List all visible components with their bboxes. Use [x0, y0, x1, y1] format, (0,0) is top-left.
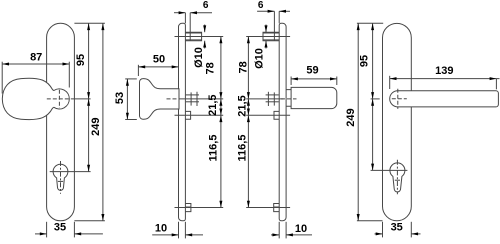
- label 87: [30, 52, 42, 64]
- dimension 10 extension lines (view3): [279, 222, 286, 239]
- knob (front view): [2, 78, 69, 119]
- dimension 116,5 line (view2): [219, 115, 222, 207]
- svg-text:59: 59: [306, 64, 318, 76]
- dimension 35 extension lines (view4): [383, 222, 412, 238]
- dimension 10 extension lines (view2): [179, 222, 186, 239]
- handle centre extension (view3): [246, 98, 283, 100]
- label 78 (view2): [205, 62, 217, 74]
- svg-text:78: 78: [238, 61, 250, 73]
- bottom boss extension (view3): [246, 207, 290, 209]
- bottom extension line (view1): [74, 220, 105, 222]
- dimension 10 line (view3): [271, 233, 312, 236]
- bottom extension line (view4): [357, 220, 383, 222]
- dimension 21,5 line (view2): [219, 99, 222, 115]
- svg-text:6: 6: [258, 0, 264, 11]
- svg-text:95: 95: [359, 55, 371, 67]
- bottom boss (side view, lever set): [274, 204, 280, 212]
- label 116,5 (view2): [207, 135, 219, 162]
- label Ø10 (view3): [253, 48, 265, 69]
- chain dimension line to cylinder (view4): [371, 99, 374, 170]
- label 53: [114, 92, 126, 104]
- top fixing boss (side view): [185, 32, 201, 41]
- knob centre line (side, dashed): [167, 98, 182, 100]
- svg-text:139: 139: [435, 65, 453, 77]
- dimension 95 line (view4): [371, 23, 374, 99]
- dimension Ø10 lines (view2): [203, 25, 206, 49]
- svg-text:10: 10: [295, 223, 307, 235]
- backplate (side view, lever set): [279, 23, 286, 221]
- svg-text:Ø10: Ø10: [253, 48, 265, 69]
- euro profile cylinder hole (view4): [390, 163, 405, 192]
- mid boss extension (view2): [175, 114, 224, 116]
- svg-text:Ø10: Ø10: [193, 47, 205, 68]
- dimension 59 extension lines: [291, 77, 337, 86]
- label 139: [435, 65, 453, 77]
- spindle hub (side view, lever set): [266, 92, 279, 106]
- svg-text:50: 50: [153, 54, 165, 66]
- dimension 59 line: [291, 77, 337, 80]
- svg-text:10: 10: [155, 223, 167, 235]
- dimension 139 extension line: [389, 76, 391, 89]
- label 95 (view1): [75, 54, 87, 66]
- handle centre extension (view4): [371, 98, 380, 100]
- mid boss (side view, lever set): [274, 111, 279, 119]
- svg-text:116,5: 116,5: [207, 135, 219, 162]
- label 249 (view4): [345, 108, 357, 126]
- dimension 95 line (view1): [87, 23, 90, 99]
- boss centre extension (view3): [246, 35, 290, 37]
- label Ø10 (view2): [193, 47, 205, 68]
- knob centre line (dashed): [47, 90, 72, 108]
- dimension 6 extension lines (view2): [185, 13, 190, 41]
- dimension 10 line (view2): [152, 233, 203, 236]
- spindle hub (side view): [186, 92, 199, 106]
- label 21,5 (view2): [207, 94, 219, 115]
- svg-text:116,5: 116,5: [236, 135, 248, 162]
- dimension 78 line (view2): [219, 36, 222, 98]
- backplate (front view, knob set): [47, 23, 75, 221]
- svg-text:6: 6: [203, 0, 209, 11]
- dimension 21,5 line (view3): [247, 99, 250, 115]
- mid boss (side view): [185, 111, 190, 119]
- cylinder centre extension (view1): [50, 171, 91, 173]
- dimension 139 line: [390, 77, 500, 89]
- dimension 6 line (view2): [174, 11, 212, 14]
- dimension 35 line (view4): [375, 232, 421, 235]
- lever grip (side view): [291, 87, 337, 108]
- dimension 6 line (view3): [257, 10, 290, 13]
- svg-text:53: 53: [114, 92, 126, 104]
- euro profile cylinder hole: [53, 164, 68, 190]
- top extension line (view1): [74, 22, 105, 24]
- label 21,5 (view3): [236, 95, 248, 116]
- label 95 (view4): [359, 55, 371, 67]
- label 116,5 (view3): [236, 135, 248, 162]
- top fixing boss (side view, lever set): [263, 32, 279, 41]
- label 50: [153, 54, 165, 66]
- label 59: [306, 64, 318, 76]
- lever handle (front view): [390, 91, 499, 107]
- svg-text:249: 249: [345, 108, 357, 126]
- label 6 (view2): [203, 0, 209, 11]
- svg-text:249: 249: [90, 118, 102, 136]
- mid boss extension (view3): [246, 114, 290, 116]
- dimension 116,5 line (view3): [247, 115, 250, 207]
- dimension 6 extension lines (view3): [274, 11, 279, 40]
- svg-text:78: 78: [205, 62, 217, 74]
- svg-text:95: 95: [75, 54, 87, 66]
- bottom boss extension (view2): [175, 207, 224, 209]
- label 6 (view3): [258, 0, 264, 11]
- dimension 249 line (view1): [101, 23, 104, 221]
- lever neck (side view): [286, 90, 291, 107]
- cylinder centre line (view4): [396, 160, 398, 194]
- label 35 (view4): [391, 222, 403, 234]
- boss centre extension (view2): [175, 35, 224, 37]
- label 10 (view3): [295, 223, 307, 235]
- knob centre extension (view1): [72, 98, 91, 100]
- dimension Ø10 lines (view3): [265, 25, 268, 49]
- chain dimension line to cylinder (view1): [87, 99, 90, 172]
- label 249 (view1): [90, 118, 102, 136]
- dimension 35 line (view1): [35, 232, 103, 235]
- dimension 87 extension lines: [2, 62, 69, 94]
- lever centre lines (front, dashed): [392, 89, 407, 109]
- svg-text:35: 35: [391, 222, 403, 234]
- handle centre extension (view2): [182, 98, 224, 100]
- backplate (side view, knob set): [179, 23, 186, 221]
- dimension 78 line (view3): [247, 36, 250, 98]
- backplate (front view, lever set): [383, 23, 412, 220]
- svg-text:21,5: 21,5: [236, 95, 248, 116]
- dimension 53 line: [126, 79, 129, 120]
- bottom boss (side view): [185, 204, 191, 212]
- top extension line (view4): [357, 22, 383, 24]
- svg-text:35: 35: [54, 222, 66, 234]
- cylinder centre extension (view4): [371, 169, 408, 171]
- cylinder centre lines: [60, 161, 62, 194]
- lever centre line (side, dashed): [281, 98, 297, 100]
- dimension 249 line (view4): [357, 23, 360, 221]
- dimension 50 line: [138, 65, 178, 68]
- dimension 50 extension line: [137, 65, 139, 76]
- svg-text:87: 87: [30, 52, 42, 64]
- dimension 87 line: [2, 63, 69, 66]
- dimension 53 extension lines: [125, 79, 137, 120]
- knob (side view): [140, 79, 180, 120]
- svg-text:21,5: 21,5: [207, 94, 219, 115]
- dimension 35 extension lines (view1): [47, 222, 75, 238]
- label 10 (view2): [155, 223, 167, 235]
- label 78 (view3): [238, 61, 250, 73]
- label 35 (view1): [54, 222, 66, 234]
